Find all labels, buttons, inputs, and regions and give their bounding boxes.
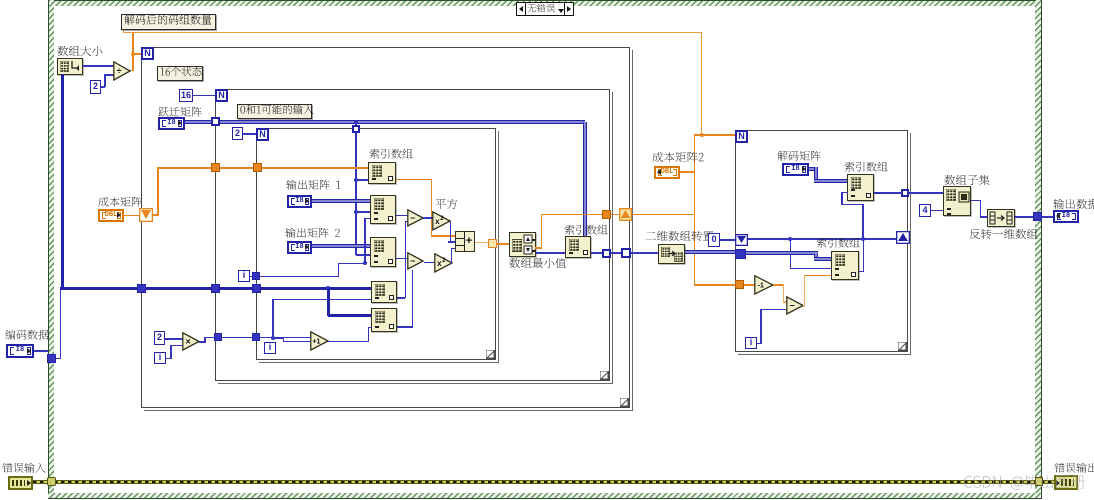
transpose 2D array node [658,244,685,264]
iteration i outer [154,352,166,364]
svg-text:+1: +1 [312,339,320,346]
array subset node [943,186,971,216]
label 0和1可能的输入 [237,104,312,119]
wire i to sub3 c [760,309,786,311]
label 成本矩阵2 [652,152,705,167]
wire branch to IA5 h [328,314,371,317]
wire IA5 out riser [412,270,414,327]
wire i to mult a [166,358,172,360]
wire transition drop x356 [355,124,357,255]
wire mult out riser [204,337,206,342]
wire sub3 out a [803,305,805,307]
constant 2 (divisor) [90,80,101,94]
wire 2 to mult [165,338,183,340]
label 二维数组转置 [645,231,715,246]
subtract node 1 [407,209,424,227]
inner loop resize corner [486,350,495,359]
for loop outer (codewords) [141,47,630,408]
middle loop count N [215,89,228,102]
label 解码矩阵 [777,151,822,165]
encoded data tunnel [47,354,56,363]
wire subset out a [971,200,981,202]
index array IA7 [847,174,874,201]
wire IA5 out [397,326,413,328]
wire cost2 connect [680,171,694,173]
junction i-mid junction [363,261,367,265]
case structure frame left [48,0,54,499]
index array IA1 [368,162,396,184]
wire IA1 to compound [431,235,455,237]
cost tunnel inner [253,163,262,172]
shift register right loop (right) [896,231,910,244]
wire 16 to N [193,95,215,97]
wire sub3 to IA8 [804,275,831,277]
wire sq1 to compound [448,241,456,243]
iteration i right [745,337,757,349]
wire mult out a [199,341,206,343]
wire IA7 idx riser [862,204,864,239]
wire decode matrix c [814,179,847,183]
label 索引数组 (IA6) [564,225,609,239]
wire SR bus [748,238,896,240]
wire block count bus [123,32,702,33]
wire subset out b [980,200,982,217]
right loop count N [735,130,748,143]
wire minval bus [541,214,694,216]
main bus tunnel middle [211,284,220,293]
index array IA4 [371,281,397,303]
wire tunnel to arraymin [497,243,510,245]
iteration i inner [264,342,276,354]
输出矩阵 1 terminal [287,195,312,208]
IA6 tunnel outer [621,248,631,258]
wire branch to IA5 [327,288,330,316]
wire output matrix 2 wire [312,244,370,248]
compound out tunnel [488,239,497,248]
label 错误输出 [1054,463,1094,477]
subtract node 2 [407,252,424,270]
wire cost riser [157,168,159,216]
wire IA8 idx drop [790,239,792,268]
wire tunnel to riser [54,358,61,360]
label 输出矩阵 1 [286,180,341,194]
wire sq2 out riser [451,248,453,263]
svg-text:−: − [789,301,794,311]
wire minidx out [536,252,565,254]
divide node [113,61,131,81]
label 编码数据 [5,330,50,344]
label 输出矩阵 2 [285,228,341,242]
for loop right (traceback) [735,130,908,352]
label 索引数组 (IA8) [816,238,861,252]
wire label stub [123,30,125,33]
transpose tunnel right loop [735,249,746,259]
IA6 tunnel middle [602,249,611,258]
wire decode matrix b [814,167,818,181]
junction idx junction IA1 [354,178,358,182]
label 16个状态 [157,66,203,81]
wire dec to sub3 [783,301,787,303]
label case selector text 无错误 [527,4,556,16]
2i tunnel inner [252,333,260,341]
wire transposed to IA8 [814,257,831,261]
square node 2 [434,253,453,273]
subtract node 3 [786,296,804,315]
transition inner top tunnel [352,125,360,133]
wire sub2 out [424,262,435,264]
错误输入 terminal [8,476,33,490]
label 跃迁矩阵 [158,107,203,121]
square node 1 [432,211,451,231]
array size node [57,58,83,75]
wire transition drop x585 [583,122,587,236]
case structure frame top [48,0,1041,6]
main bus tunnel inner [252,284,261,293]
wire i-mid to IA3 [338,263,365,265]
label 索引数组 (IA7) [844,162,889,176]
label text 0和1可能的输入 [240,105,314,119]
wire divide out riser [132,33,134,54]
wire i to mult c [170,345,183,347]
wire inc to IA5 [368,327,372,329]
for loop inner (2 inputs) [256,128,496,360]
wire inc out riser [368,327,370,341]
wire IA3 out [396,258,409,260]
wire cost2 to right loop [694,284,755,286]
wire IA7 to subset [909,192,943,194]
错误输出 terminal [1054,475,1078,490]
middle loop resize corner [600,371,609,380]
wire transposed bus right loop [746,251,818,255]
for loop outer (codewords) shadow [144,50,633,411]
increment node +1 [310,331,329,351]
wire encoded data to frame [34,350,48,352]
wire encoded data main bus [60,287,372,290]
decrement node -1 [754,275,774,295]
wire IA7 out wire [874,192,902,194]
shift register cost (right) [619,208,632,221]
label 成本矩阵 [98,197,143,211]
label text 16个状态 [160,67,203,81]
transition tunnel middle [211,117,220,126]
输出数据 terminal [1053,210,1079,223]
跃迁矩阵 terminal [158,117,185,130]
wire sub3 out riser [804,275,806,306]
wire i to sub3 b [760,309,762,344]
label watermark CSDN [963,475,1086,495]
index array IA3 [370,237,396,267]
output tunnel [1033,212,1042,221]
constant 2 (x2) [154,331,165,345]
outer loop count N [141,47,154,60]
wire minval riser [541,214,543,248]
wire 2i jog b [283,338,285,342]
right loop resize corner [898,342,907,351]
case selector right arrow [564,3,573,15]
wire 2i bus [204,337,316,339]
case structure frame right [1035,0,1042,499]
wire 4 to subset [931,210,943,212]
输出矩阵 2 terminal [287,241,312,254]
case structure frame bottom [48,493,1041,499]
label 数组子集 [944,175,991,190]
for loop right (traceback) shadow [738,133,911,355]
multiply node [182,332,200,351]
svg-text:÷: ÷ [117,66,122,76]
wire 2 to inner N [243,133,256,135]
wire 2 to divide a [101,86,105,88]
i-mid tunnel [252,272,260,280]
wire i-mid wire [250,276,338,278]
wire i to sub3 a [757,343,762,345]
wire IA6 out [591,252,659,254]
wire SR to riser stub [152,214,159,216]
成本矩阵 terminal [98,209,124,222]
index array IA6 [565,236,591,258]
wire sq1 out drop [450,221,452,242]
index array IA8 [831,251,859,280]
wire IA1 out [396,179,431,181]
svg-text:-1: -1 [758,283,764,290]
wire IA4 out riser [405,221,407,298]
wire to output indicator [1042,216,1053,218]
junction transition branch [354,120,358,124]
label 反转一维数组 [969,229,1039,244]
解码矩阵 terminal [782,163,809,176]
constant 4 [919,204,931,217]
constant 2 (inner) [232,127,243,140]
wire cost to SR [124,215,140,217]
wire encoded data riser [60,289,62,359]
wire output matrix 1 wire [312,199,370,203]
wire 2i jog a [273,338,284,340]
wire IA8 out [859,271,864,273]
inner loop count N [256,128,269,141]
svg-text:−: − [410,256,415,266]
junction SR bus junction 2 [861,237,865,241]
wire IA4 to sub1 [405,221,409,223]
wire encoded data vertical to array size [61,74,64,290]
wire decode matrix a [809,167,818,171]
compound add node [455,231,475,252]
wire i to mult b [170,345,172,359]
wire minval out [535,247,542,249]
label 平方 [435,199,459,214]
label text 解码后的码组数量 [124,15,213,29]
2i tunnel middle [214,333,222,341]
wire IA1 out drop [431,179,433,236]
shift register right loop (left) [735,234,748,246]
label 索引数组 (inner top) [369,149,414,163]
编码数据 terminal [6,344,34,358]
wire orange trunk x694 [694,135,696,285]
wire sq2 to compound [451,248,456,250]
wire IA7 idx riser2 [841,192,843,205]
wire transposed jog [814,254,818,260]
wire sub1 out [423,217,433,219]
wire IA8 out riser [863,240,865,272]
label 数组最小值 [509,258,567,273]
wire IA7 idx stub [841,192,848,194]
成本矩阵2 terminal [654,166,680,179]
wire cost bus [157,167,369,169]
label 数组大小 [57,46,104,61]
junction main bus branch [326,286,330,290]
wire IA7 idx h [842,204,863,206]
wire error main [33,480,1055,484]
for loop middle (16 states) shadow [218,92,613,384]
wire 2i to IA4 idx [273,299,371,301]
wire transpose out [685,250,735,254]
junction block count junction [700,133,704,137]
shift register cost (left) [139,208,153,222]
wire to right loop N [694,134,735,136]
case selector box [516,2,574,16]
wire subset out c [980,216,988,218]
iteration i middle [238,270,250,282]
for loop inner (2 inputs) shadow [259,131,499,363]
wire IA4 out [397,297,405,299]
label 输出数据 [1053,199,1094,214]
wire divide tip riser [132,54,134,71]
case selector dropdown glyph [558,9,564,13]
IA7 out tunnel [901,189,909,197]
wire 2i up branch [272,299,274,338]
wire i-mid to IA2 idx2 [364,218,370,220]
reverse 1D array node [987,209,1015,227]
wire idx to IA1 [357,179,369,181]
wire IA8 idx h [790,268,831,270]
array min node [509,232,536,257]
right loop orange tunnel [735,280,744,289]
wire dec out [773,284,783,286]
error tunnel right [1035,477,1043,486]
junction divide junction [131,52,135,56]
wire idx to IA2 [357,211,371,213]
constant 0 [708,233,720,247]
index array IA2 [370,195,396,224]
wire dec out drop [783,284,785,302]
wire 0 to SR [720,239,736,241]
constant 16 [179,89,193,102]
outer loop resize corner [620,398,629,407]
svg-text:−: − [410,213,415,223]
wire transition matrix bus [185,120,585,124]
wire array size to divide [83,65,114,67]
label 解码后的码组数量 [121,14,216,30]
wire inc out [328,341,369,343]
wire 2i to inc [283,341,311,343]
index array IA5 [371,308,397,332]
wire reverse out [1015,216,1034,218]
wire divide tip stub [130,70,134,72]
wire block count drop to right loop [701,33,702,135]
main bus tunnel outer [137,284,146,293]
junction SR bus junction 1 [788,237,792,241]
wire compound out [475,242,489,244]
svg-text:×: × [185,337,190,347]
for loop middle (16 states) [215,89,610,381]
wire i-mid riser [338,263,340,277]
error tunnel left [47,477,56,486]
wire i-mid up branch [364,218,366,263]
case selector left arrow [517,3,526,15]
wire divide to N [133,53,142,55]
cost tunnel middle [211,163,220,172]
junction 2i junction [271,336,275,340]
wire 2 to divide c [104,74,114,76]
wire idx to IA3 [356,254,370,256]
wire 2 to divide b [104,74,106,87]
label 错误输入 [2,463,47,477]
minval tunnel middle [602,210,611,219]
wire IA2 out [396,215,409,217]
junction idx junction IA2 [354,210,358,214]
